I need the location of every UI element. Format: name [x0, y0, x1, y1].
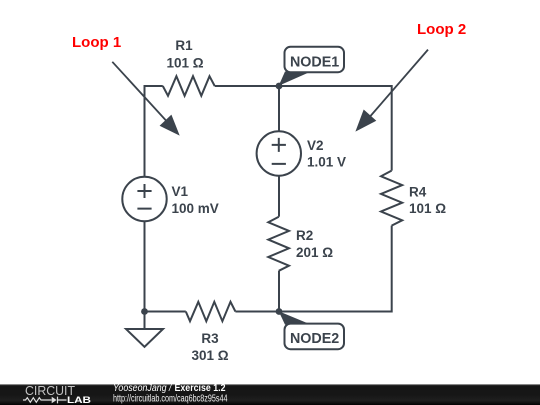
svg-text:NODE2: NODE2 [290, 331, 339, 347]
resistor R2 [268, 217, 289, 271]
svg-text:LAB: LAB [67, 395, 91, 405]
svg-text:301 Ω: 301 Ω [191, 348, 228, 363]
wire: R2 to NODE2 [278, 271, 280, 312]
svg-text:V1: V1 [172, 184, 189, 199]
wire: R3 to NODE2 [235, 311, 279, 313]
wire: NODE2 to bottom-right corner, up right side to R4 [279, 226, 392, 312]
CircuitLab logo diode symbol [52, 397, 67, 404]
node NODE1 junction dot [276, 83, 283, 90]
arrow Loop 2 [355, 50, 428, 132]
svg-text:101 Ω: 101 Ω [166, 56, 203, 71]
wire: V1 bottom to ground node [144, 222, 146, 312]
node NODE2 junction dot [276, 308, 283, 315]
CircuitLab logo resistor zigzag [23, 398, 52, 403]
wire: V2 to R2 [278, 176, 280, 217]
node: ground junction dot [141, 308, 148, 315]
wire: NODE1 to top-right corner, down right side to R4 [279, 86, 392, 171]
voltage source V1 [122, 177, 166, 221]
resistor R3 [186, 302, 236, 321]
svg-text:1.01 V: 1.01 V [307, 155, 346, 170]
svg-text:Exercise 1.2: Exercise 1.2 [175, 383, 226, 394]
svg-text:http://circuitlab.com/caq6bc8z: http://circuitlab.com/caq6bc8z95s44 [113, 394, 228, 405]
arrow Loop 1 [112, 62, 179, 136]
svg-text:Loop 2: Loop 2 [417, 21, 466, 38]
resistor R1 [163, 76, 215, 96]
label NODE1 callout [279, 47, 344, 86]
voltage source V2 [257, 131, 301, 175]
wire: top-left corner, left vertical down to V1 top [145, 86, 163, 177]
svg-text:R2: R2 [296, 228, 313, 243]
wire: middle vertical NODE1 down to V2 [278, 86, 280, 131]
footer bar [0, 384, 540, 405]
svg-text:YooseonJang /: YooseonJang / [113, 383, 173, 394]
resistor R4 [381, 171, 402, 226]
svg-text:Loop 1: Loop 1 [72, 34, 121, 51]
svg-text:201 Ω: 201 Ω [296, 245, 333, 260]
wire: bottom wire ground node to R3 [145, 311, 186, 313]
svg-text:R4: R4 [409, 185, 427, 200]
ground [126, 312, 163, 347]
svg-text:NODE1: NODE1 [290, 54, 339, 70]
label NODE2 callout [279, 311, 344, 349]
svg-text:R1: R1 [175, 38, 193, 53]
svg-text:100 mV: 100 mV [172, 201, 219, 216]
wire: R1 to NODE1 [215, 85, 279, 87]
svg-text:R3: R3 [201, 331, 219, 346]
svg-text:101 Ω: 101 Ω [409, 201, 446, 216]
svg-text:V2: V2 [307, 138, 324, 153]
